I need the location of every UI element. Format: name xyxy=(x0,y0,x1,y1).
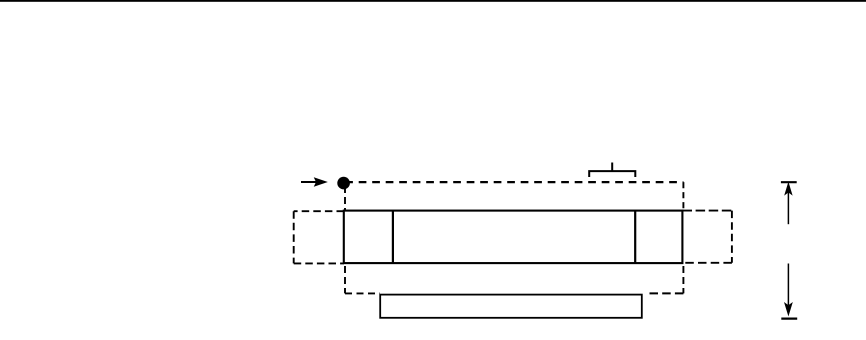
bottom plate rectangle xyxy=(380,295,642,318)
dashed outline: bottom-left segment xyxy=(345,292,380,294)
main body rectangle xyxy=(344,211,683,264)
index dot xyxy=(337,177,350,190)
left divider line xyxy=(392,211,394,264)
dimension upper shaft xyxy=(787,191,789,224)
right dashed extension box xyxy=(683,211,732,263)
dashed outline: lower-left vertical xyxy=(344,266,346,293)
page header rule xyxy=(0,0,866,2)
dimension bottom tick xyxy=(781,318,797,320)
dashed outline: top edge xyxy=(345,181,683,183)
dashed outline: bottom-right segment xyxy=(646,292,683,294)
dimension lower shaft xyxy=(787,264,789,306)
dashed outline: lower-right vertical xyxy=(682,266,684,293)
dashed outline: upper-right vertical xyxy=(682,182,684,210)
right divider line xyxy=(634,211,636,264)
dimension down arrowhead xyxy=(785,303,792,315)
pointer arrow xyxy=(301,178,327,186)
dimension top tick xyxy=(781,181,797,183)
left dashed extension box xyxy=(294,211,344,263)
dimension up arrowhead xyxy=(785,183,792,194)
dashed outline: upper-left vertical xyxy=(344,186,346,211)
top terminal bracket xyxy=(589,163,635,178)
